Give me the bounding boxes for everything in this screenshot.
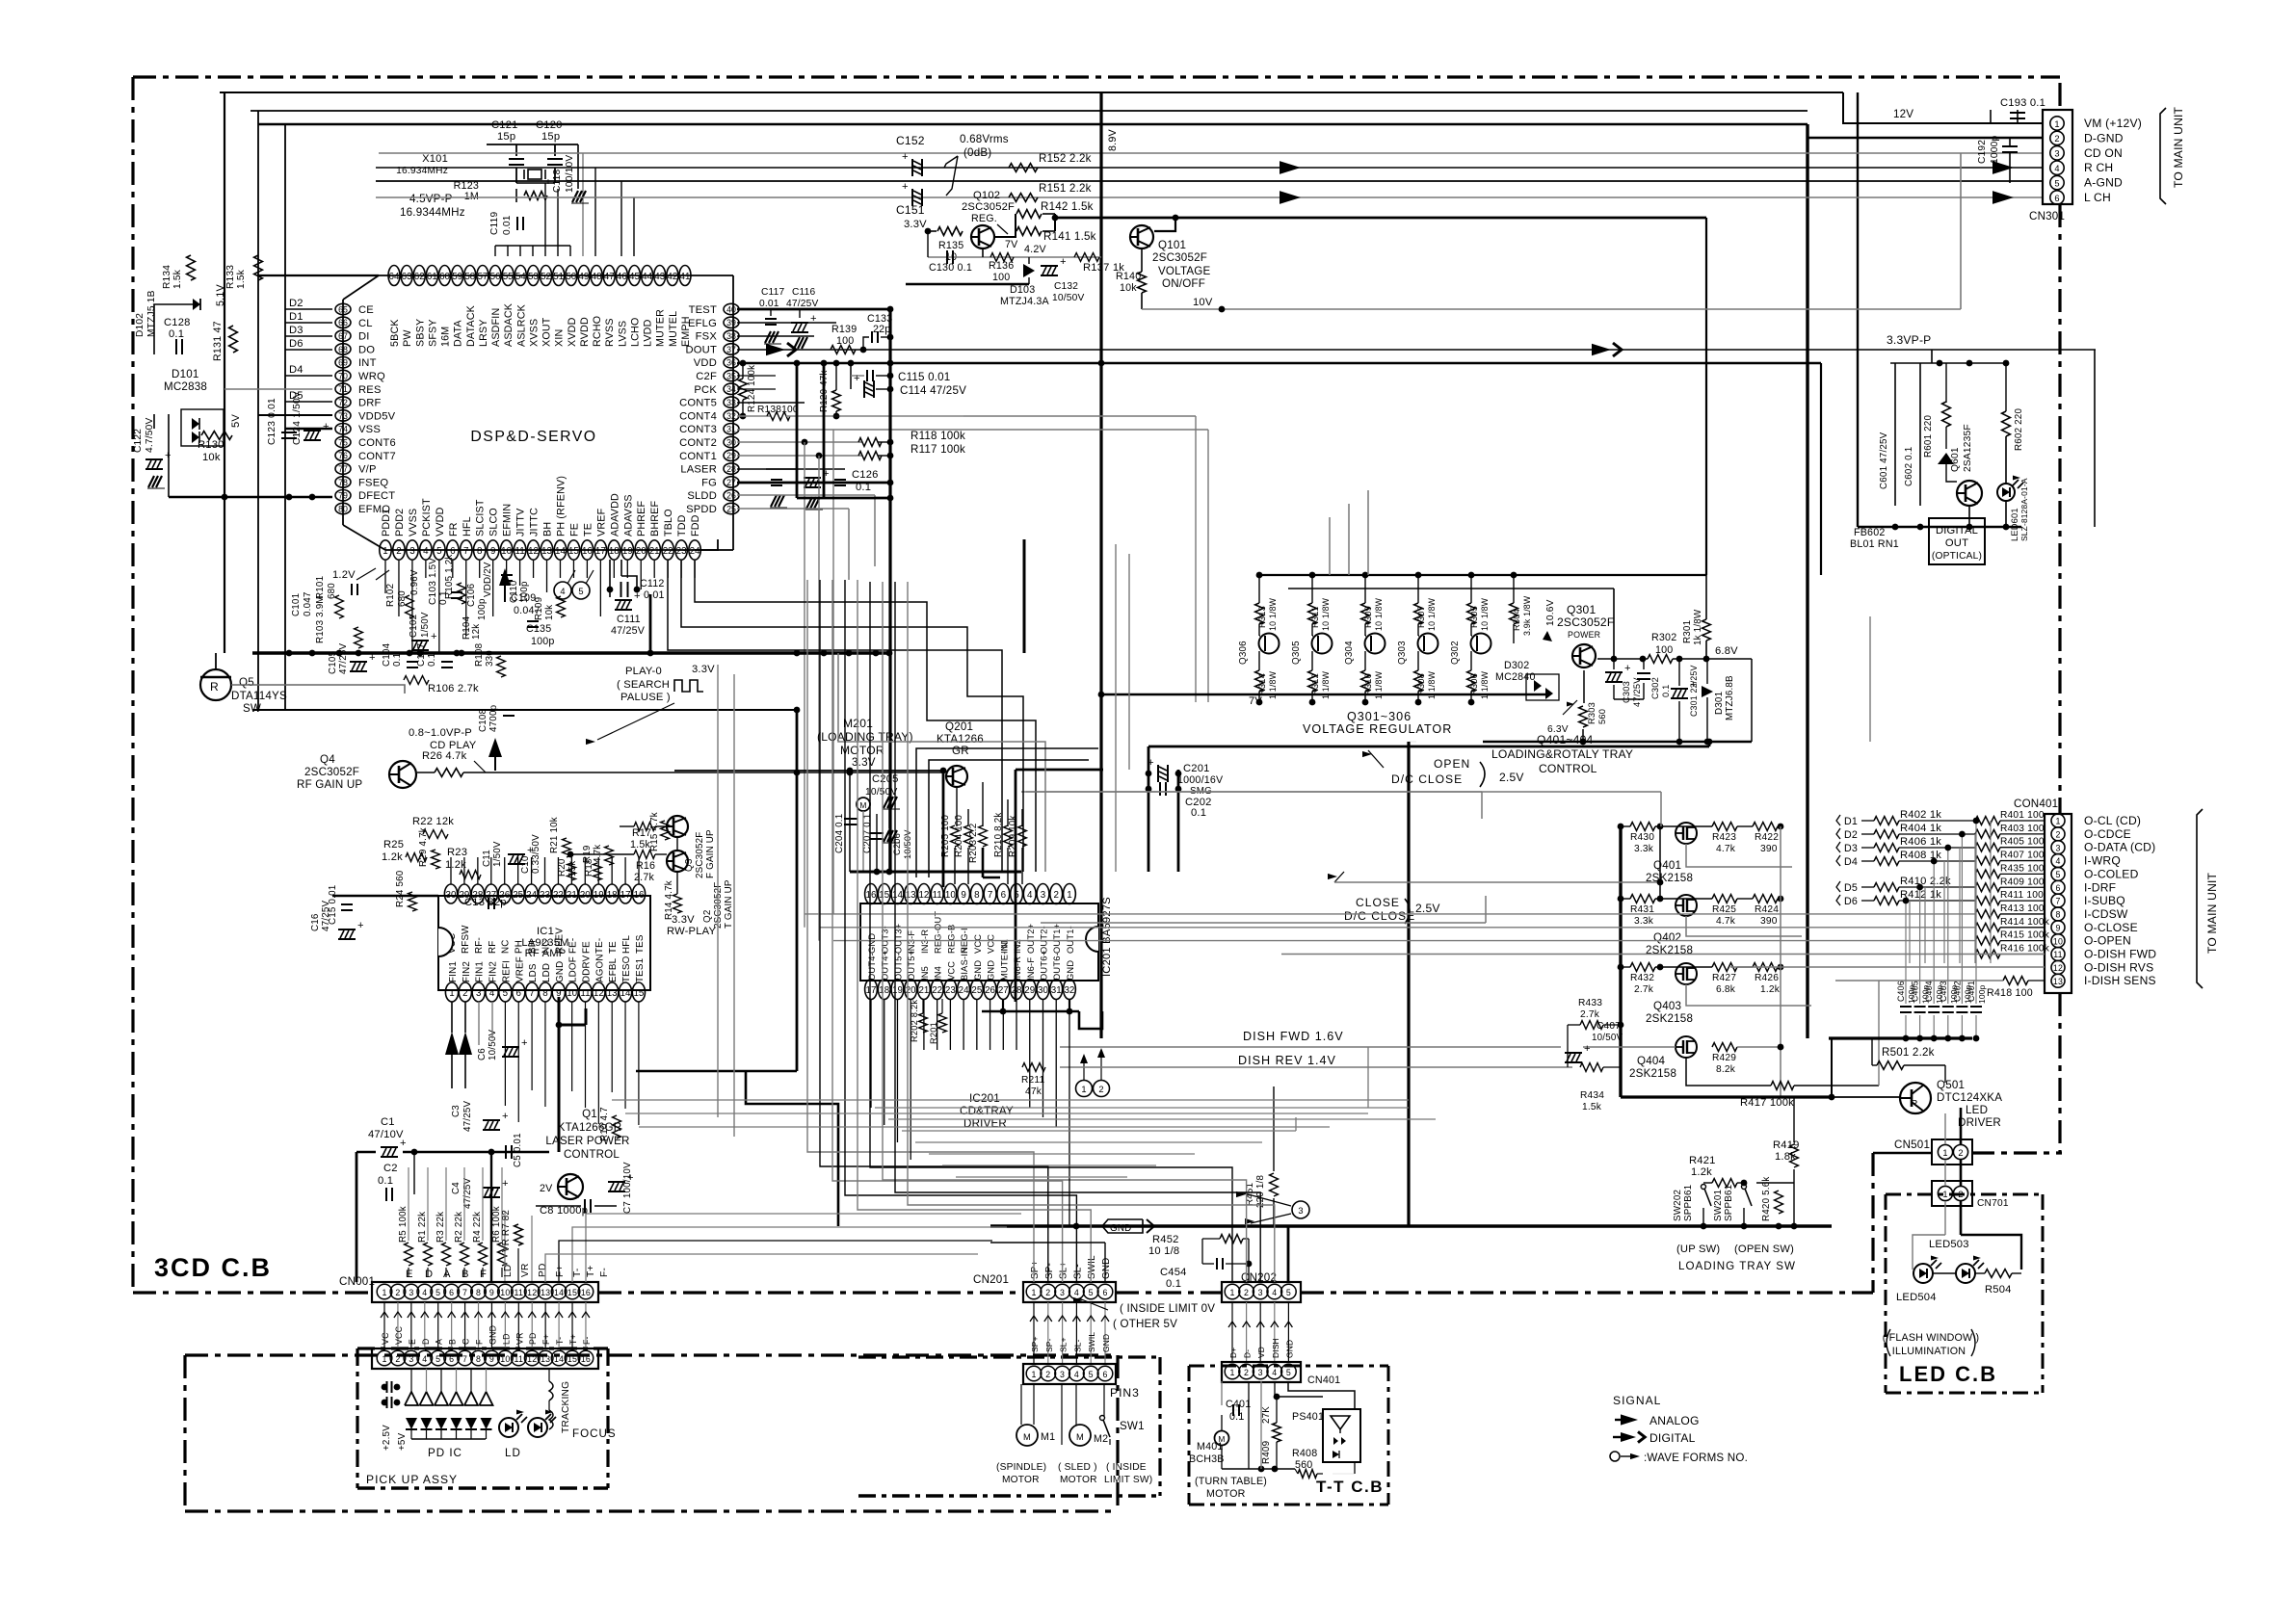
svg-text:7: 7 (462, 1288, 467, 1297)
svg-text:DDRV: DDRV (582, 955, 593, 982)
svg-text:VDD: VDD (694, 357, 717, 369)
svg-text:R432: R432 (1630, 973, 1654, 983)
svg-text:47/25V: 47/25V (611, 625, 646, 637)
svg-text:F-: F- (599, 1268, 610, 1277)
svg-text:LDD: LDD (541, 963, 552, 982)
svg-text:R133: R133 (225, 265, 236, 289)
svg-text:R130: R130 (198, 439, 224, 451)
svg-text:OUT6-: OUT6- (1052, 953, 1062, 981)
svg-text:5: 5 (1286, 1368, 1291, 1377)
svg-text:FE: FE (568, 523, 580, 537)
svg-text:LED504: LED504 (1896, 1292, 1937, 1303)
svg-text:31: 31 (1051, 985, 1062, 996)
svg-text:MC2838: MC2838 (164, 380, 207, 393)
svg-text:SLZ-8128A-01-A: SLZ-8128A-01-A (2019, 478, 2029, 541)
svg-text:CONT2: CONT2 (679, 437, 717, 449)
svg-text:0.1: 0.1 (1166, 1278, 1181, 1290)
svg-text:24: 24 (959, 985, 969, 996)
svg-text:1.5k: 1.5k (1582, 1102, 1602, 1113)
svg-text:10 1/8W: 10 1/8W (1321, 597, 1331, 631)
svg-text:C407: C407 (1597, 1021, 1621, 1032)
svg-text:MUTEL: MUTEL (668, 311, 679, 347)
svg-text:10: 10 (500, 1288, 510, 1297)
svg-text:2.5V: 2.5V (1499, 771, 1524, 784)
svg-text:VOLTAGE REGULATOR: VOLTAGE REGULATOR (1303, 722, 1452, 736)
svg-text:HFL: HFL (621, 935, 632, 954)
svg-text:3.3VP-P: 3.3VP-P (1887, 333, 1931, 347)
svg-text:Q601: Q601 (1950, 447, 1961, 472)
svg-text:LCHO: LCHO (629, 318, 641, 348)
svg-text:1: 1 (449, 988, 454, 999)
svg-text:RF AMP: RF AMP (525, 948, 567, 959)
svg-text:15: 15 (879, 890, 889, 901)
svg-text:C2: C2 (383, 1163, 398, 1174)
svg-text:23: 23 (540, 890, 550, 901)
svg-text:F: F (480, 1269, 487, 1280)
svg-text:D6: D6 (1844, 896, 1858, 907)
svg-text:5: 5 (2054, 178, 2059, 188)
svg-text:3: 3 (476, 988, 482, 999)
svg-text:R302: R302 (1651, 632, 1676, 643)
svg-text:T+: T+ (586, 1265, 596, 1277)
svg-text:2: 2 (396, 546, 401, 557)
svg-text:IN5: IN5 (920, 966, 930, 981)
svg-text:ADAVSS: ADAVSS (622, 494, 634, 537)
svg-text:C106: C106 (466, 583, 477, 607)
svg-text:5V: 5V (230, 414, 242, 428)
svg-text:0.01: 0.01 (759, 299, 779, 309)
svg-text:1: 1 (1942, 1148, 1947, 1158)
svg-text:+5V: +5V (397, 1432, 408, 1451)
svg-text:SWIL: SWIL (1087, 1255, 1097, 1279)
svg-text:F: F (475, 1339, 485, 1345)
svg-text:FE-: FE- (567, 938, 578, 954)
svg-text:1: 1 (382, 1354, 386, 1364)
svg-text:CD ON: CD ON (2084, 146, 2123, 160)
svg-text:1: 1 (1031, 1288, 1036, 1297)
svg-text:CONT7: CONT7 (358, 451, 396, 462)
svg-text:23: 23 (945, 985, 956, 996)
svg-text:XVDD: XVDD (567, 317, 578, 347)
svg-text:SLCO: SLCO (488, 508, 500, 537)
svg-text:10 1/8W: 10 1/8W (1268, 597, 1278, 631)
svg-text:15: 15 (568, 546, 579, 557)
svg-text:10/50V: 10/50V (1592, 1033, 1623, 1043)
svg-text:R1 22k: R1 22k (417, 1212, 428, 1243)
svg-text:3.3V: 3.3V (852, 756, 876, 769)
svg-text:1: 1 (383, 546, 387, 557)
svg-text:ANALOG: ANALOG (1649, 1414, 1700, 1427)
svg-text:LDS: LDS (528, 963, 539, 982)
svg-text:O-COLED: O-COLED (2084, 867, 2139, 880)
svg-text:D-: D- (1243, 1349, 1253, 1358)
svg-text:12: 12 (528, 546, 539, 557)
svg-text:GND: GND (1101, 1258, 1112, 1279)
svg-text:52: 52 (541, 272, 551, 282)
svg-text:4.5VP-P: 4.5VP-P (409, 193, 453, 205)
svg-text:LIMIT SW): LIMIT SW) (1104, 1475, 1152, 1485)
svg-text:CN001: CN001 (339, 1275, 375, 1288)
svg-text:4.2V: 4.2V (1024, 244, 1046, 255)
svg-text:7: 7 (988, 890, 992, 901)
svg-text:Q5: Q5 (239, 676, 254, 689)
svg-text:CON401: CON401 (2014, 798, 2058, 810)
svg-text:R141 1.5k: R141 1.5k (1043, 230, 1096, 243)
svg-text:3: 3 (409, 1288, 413, 1297)
svg-text:2.7k: 2.7k (634, 872, 654, 883)
svg-text:R205 100: R205 100 (940, 815, 951, 857)
svg-text:3: 3 (2054, 149, 2059, 159)
svg-text:SIGNAL: SIGNAL (1613, 1394, 1661, 1407)
svg-text:8: 8 (974, 890, 980, 901)
svg-text:2: 2 (1098, 1085, 1103, 1094)
svg-text:21: 21 (918, 985, 929, 996)
svg-text:2SK2158: 2SK2158 (1629, 1067, 1676, 1080)
svg-text:XOUT: XOUT (541, 317, 553, 347)
svg-text:VDD/2V: VDD/2V (483, 562, 493, 597)
svg-text:22p: 22p (873, 324, 890, 335)
svg-text:R403 100: R403 100 (2000, 824, 2045, 834)
svg-text:0.047: 0.047 (303, 591, 313, 616)
svg-text:(0dB): (0dB) (963, 146, 991, 159)
svg-text:14: 14 (620, 988, 631, 999)
svg-text:Q305: Q305 (1291, 641, 1302, 665)
svg-text:5: 5 (436, 546, 442, 557)
svg-text:C111: C111 (617, 614, 641, 625)
svg-text:19: 19 (594, 890, 604, 901)
svg-text:5: 5 (578, 587, 583, 596)
svg-text:I-DRF: I-DRF (2084, 880, 2116, 894)
svg-text:2: 2 (395, 1354, 400, 1364)
svg-text:DTC124XKA: DTC124XKA (1937, 1091, 2002, 1104)
svg-text:1.5k: 1.5k (172, 269, 183, 289)
svg-text:R409: R409 (1261, 1441, 1272, 1464)
svg-text:(SPINDLE): (SPINDLE) (996, 1462, 1046, 1473)
svg-text:FSX: FSX (696, 331, 718, 343)
svg-text:2: 2 (1958, 1190, 1963, 1199)
svg-text:R405 100: R405 100 (2000, 837, 2045, 848)
svg-text:ASDACK: ASDACK (503, 302, 515, 347)
svg-text:2.5V: 2.5V (1415, 902, 1440, 915)
svg-text:35: 35 (726, 371, 736, 380)
svg-text:0.1: 0.1 (1229, 1411, 1244, 1423)
svg-text:1.2k: 1.2k (1691, 1166, 1712, 1178)
svg-text:IC1: IC1 (537, 926, 554, 937)
svg-text:30: 30 (1038, 985, 1048, 996)
svg-text:C401: C401 (1966, 981, 1976, 1002)
svg-text:14: 14 (555, 546, 566, 557)
svg-text:DISH FWD 1.6V: DISH FWD 1.6V (1243, 1030, 1344, 1043)
svg-text:TBLO: TBLO (663, 509, 674, 537)
svg-text:5: 5 (1089, 1288, 1094, 1297)
svg-text:0.1: 0.1 (392, 653, 403, 667)
svg-text:PLAY-0: PLAY-0 (625, 666, 662, 677)
svg-text:330: 330 (485, 650, 495, 667)
svg-text:M1: M1 (1041, 1431, 1055, 1443)
svg-text:R415 100k: R415 100k (2000, 930, 2050, 941)
svg-text:47/25V: 47/25V (462, 1100, 473, 1132)
svg-text:53: 53 (528, 272, 539, 282)
svg-text:MTZJ5.1B: MTZJ5.1B (146, 290, 157, 337)
svg-text:10: 10 (501, 546, 512, 557)
svg-text:12k: 12k (471, 624, 482, 640)
svg-text:R410 2.2k: R410 2.2k (1900, 876, 1951, 887)
svg-text:R10 4.7: R10 4.7 (599, 1107, 610, 1141)
svg-text:A-GND: A-GND (2084, 176, 2123, 190)
svg-text:( FLASH WINDOW ): ( FLASH WINDOW ) (1883, 1332, 1980, 1344)
svg-text:I-DISH SENS: I-DISH SENS (2084, 974, 2156, 987)
svg-text:FDD: FDD (690, 514, 701, 537)
svg-text:R131 47: R131 47 (212, 321, 224, 361)
svg-text:TES1: TES1 (635, 958, 646, 982)
svg-text:SL+: SL+ (1059, 1262, 1069, 1279)
svg-text:FE: FE (581, 941, 592, 954)
svg-text:DATACK: DATACK (465, 304, 477, 347)
svg-text:R14 4.7k: R14 4.7k (664, 880, 674, 920)
svg-text:D4: D4 (289, 364, 303, 376)
svg-text:10.6V: 10.6V (1545, 599, 1556, 626)
svg-text:6.8V: 6.8V (1715, 645, 1738, 657)
svg-text:PDD2: PDD2 (394, 509, 406, 537)
svg-text:9: 9 (489, 1288, 494, 1297)
svg-text:D-GND: D-GND (2084, 131, 2124, 144)
svg-text:PD: PD (528, 1332, 538, 1345)
svg-text:8: 8 (477, 546, 483, 557)
svg-text:R23: R23 (447, 847, 467, 858)
svg-text:49: 49 (578, 272, 589, 282)
svg-text:R427: R427 (1712, 973, 1736, 983)
svg-text:4: 4 (423, 546, 429, 557)
svg-text:9: 9 (2055, 923, 2060, 932)
svg-text:13: 13 (541, 1288, 550, 1297)
svg-text:4: 4 (1074, 1370, 1079, 1379)
svg-text:8: 8 (476, 1354, 481, 1364)
svg-text:560: 560 (1597, 709, 1607, 724)
svg-text:C123 0.01: C123 0.01 (267, 398, 277, 445)
svg-text:1000p: 1000p (1990, 136, 2000, 164)
svg-text:PDD1: PDD1 (381, 509, 392, 537)
svg-text:4: 4 (2054, 164, 2059, 173)
svg-text:CN201: CN201 (973, 1273, 1009, 1286)
svg-text:C201: C201 (1183, 763, 1210, 774)
svg-text:20: 20 (636, 546, 647, 557)
svg-text:CL: CL (358, 318, 373, 329)
svg-text:4.7k: 4.7k (1716, 844, 1736, 854)
svg-text:1: 1 (2054, 119, 2059, 129)
svg-text:R413 100: R413 100 (2000, 903, 2045, 914)
svg-text:RF GAIN UP: RF GAIN UP (297, 778, 362, 791)
svg-text:41: 41 (680, 272, 691, 282)
svg-text:V/P: V/P (358, 464, 377, 476)
svg-text:(UP SW): (UP SW) (1676, 1243, 1720, 1255)
svg-text:OUT4+: OUT4+ (881, 951, 890, 981)
svg-text:VR: VR (520, 1263, 531, 1277)
svg-text:C10: C10 (520, 855, 531, 874)
svg-text:RW-PLAY: RW-PLAY (667, 926, 716, 937)
svg-text:+: + (854, 373, 860, 384)
svg-text:GR: GR (952, 745, 969, 757)
svg-text:DSP&D-SERVO: DSP&D-SERVO (470, 429, 596, 445)
svg-text:CONTROL: CONTROL (1539, 762, 1597, 775)
svg-text:C103: C103 (428, 581, 438, 605)
svg-text:1: 1 (1031, 1370, 1036, 1379)
svg-text:21: 21 (649, 546, 660, 557)
svg-text:R430: R430 (1630, 832, 1654, 843)
svg-text:46: 46 (617, 272, 627, 282)
svg-text:L CH: L CH (2084, 191, 2111, 204)
svg-text:29: 29 (1024, 985, 1035, 996)
svg-text:D/C CLOSE: D/C CLOSE (1391, 772, 1463, 786)
svg-text:3.3k: 3.3k (1634, 844, 1654, 854)
svg-text:C403: C403 (1939, 981, 1948, 1002)
svg-text:15: 15 (633, 988, 644, 999)
svg-text:VREF: VREF (515, 956, 525, 982)
svg-text:IN6-R: IN6-R (1013, 956, 1022, 981)
svg-text:47/25V: 47/25V (786, 299, 819, 309)
svg-text:C204 0.1: C204 0.1 (834, 814, 845, 853)
svg-text:15p: 15p (497, 131, 515, 143)
svg-text:4.7k: 4.7k (1716, 916, 1736, 927)
svg-text:9: 9 (961, 890, 965, 901)
svg-text:Q401: Q401 (1653, 859, 1681, 872)
svg-text:R142 1.5k: R142 1.5k (1041, 200, 1094, 213)
svg-text:( INSIDE LIMIT 0V: ( INSIDE LIMIT 0V (1120, 1302, 1215, 1315)
svg-text:FG: FG (701, 477, 717, 488)
svg-text:C404: C404 (1924, 981, 1934, 1002)
svg-text:1: 1 (1067, 890, 1071, 901)
svg-text:OUT2-: OUT2- (1039, 926, 1048, 954)
svg-text:TDD: TDD (676, 514, 688, 537)
svg-text:A: A (443, 1269, 451, 1280)
svg-text:2: 2 (2054, 134, 2059, 144)
svg-text:+: + (1624, 663, 1631, 674)
svg-text:D103: D103 (1010, 284, 1035, 296)
svg-text:8: 8 (2055, 910, 2060, 920)
svg-text:C7 100/10V: C7 100/10V (622, 1162, 633, 1214)
svg-text:GND: GND (1284, 1340, 1294, 1358)
svg-text:C101: C101 (291, 593, 302, 616)
svg-text:47k: 47k (1025, 1086, 1042, 1097)
svg-text:D101: D101 (172, 368, 199, 380)
svg-text:VM (+12V): VM (+12V) (2084, 117, 2142, 130)
svg-text:Q2: Q2 (702, 910, 713, 923)
svg-text:1 1/8W: 1 1/8W (1374, 670, 1384, 699)
svg-text:R118 100k: R118 100k (910, 430, 965, 442)
svg-text:VR: VR (515, 1332, 524, 1345)
svg-text:C8 1000p: C8 1000p (540, 1205, 588, 1217)
svg-text:64: 64 (389, 272, 400, 282)
svg-text:CN701: CN701 (1977, 1198, 2009, 1209)
svg-text:R407 100: R407 100 (2000, 851, 2045, 861)
svg-text:M401: M401 (1197, 1441, 1224, 1453)
svg-text:O-DISH FWD: O-DISH FWD (2084, 948, 2156, 961)
svg-text:7V: 7V (1005, 239, 1018, 250)
svg-text:R452: R452 (1152, 1234, 1179, 1245)
svg-text:SBSY: SBSY (414, 319, 426, 347)
svg-text:R: R (210, 680, 219, 694)
svg-text:D: D (421, 1338, 431, 1345)
svg-text:FIN2: FIN2 (488, 961, 499, 982)
svg-text:R303: R303 (1587, 702, 1597, 724)
svg-text:TE: TE (608, 941, 619, 954)
svg-text:R139: R139 (831, 324, 857, 335)
svg-text:16.9344MHz: 16.9344MHz (400, 206, 465, 219)
svg-text:5BCK: 5BCK (389, 319, 401, 347)
svg-text:55: 55 (503, 272, 514, 282)
svg-text:O-CDCE: O-CDCE (2084, 827, 2131, 841)
svg-text:FR: FR (448, 522, 460, 537)
svg-text:ADAVDD: ADAVDD (609, 493, 620, 537)
svg-text:Q4: Q4 (320, 753, 335, 766)
svg-text:C6: C6 (477, 1048, 488, 1060)
svg-text:10: 10 (945, 890, 956, 901)
svg-text:R140: R140 (1116, 271, 1141, 282)
svg-text:R402 1k: R402 1k (1900, 809, 1941, 821)
svg-text:D301: D301 (1714, 692, 1725, 715)
svg-text:62: 62 (414, 272, 425, 282)
svg-text:CONT6: CONT6 (358, 437, 396, 449)
svg-text:58: 58 (464, 272, 475, 282)
svg-text:26: 26 (726, 491, 736, 501)
svg-text:D5: D5 (1844, 882, 1858, 894)
svg-text:R416 100k: R416 100k (2000, 944, 2050, 955)
svg-text:PCK: PCK (694, 384, 717, 396)
svg-text:C405: C405 (1911, 981, 1920, 1002)
svg-text:C122: C122 (133, 429, 144, 453)
svg-text:( INSIDE: ( INSIDE (1106, 1462, 1147, 1473)
svg-text:7: 7 (2055, 897, 2060, 906)
svg-text:LASER: LASER (680, 464, 717, 476)
svg-text:SP+: SP+ (1030, 1261, 1041, 1279)
svg-text:IC201 BA5927S: IC201 BA5927S (1101, 897, 1113, 977)
svg-text:1 1/8W: 1 1/8W (1268, 670, 1278, 699)
svg-text:F GAIN UP: F GAIN UP (705, 829, 716, 878)
svg-text:R135: R135 (938, 240, 963, 251)
svg-text:R404 1k: R404 1k (1900, 823, 1941, 834)
svg-text:8: 8 (476, 1288, 481, 1297)
svg-text:1.5V: 1.5V (428, 558, 438, 578)
svg-text:C192: C192 (1977, 140, 1988, 164)
svg-text:VDD5V: VDD5V (358, 410, 396, 422)
svg-text:R409 100: R409 100 (2000, 877, 2045, 887)
svg-text:16: 16 (634, 890, 645, 901)
svg-text:R109: R109 (534, 597, 544, 620)
svg-text:1/50V: 1/50V (492, 841, 503, 867)
svg-text:FIN2: FIN2 (462, 961, 472, 982)
svg-text:+: + (502, 1178, 509, 1190)
svg-text:+: + (1148, 757, 1154, 769)
svg-text:CN301: CN301 (2029, 210, 2065, 223)
svg-text:4: 4 (1027, 890, 1033, 901)
svg-text:10 1/8: 10 1/8 (1148, 1245, 1179, 1257)
svg-text:Q403: Q403 (1653, 1000, 1681, 1012)
svg-text:R601 220: R601 220 (1923, 415, 1934, 458)
svg-text:PW: PW (402, 329, 413, 347)
svg-text:PCKIST: PCKIST (421, 498, 433, 537)
svg-text:LED: LED (1966, 1104, 1988, 1116)
svg-text:DI: DI (358, 331, 370, 343)
svg-text:C16: C16 (310, 913, 321, 931)
svg-text:2: 2 (395, 1288, 400, 1297)
svg-text:4: 4 (2055, 856, 2060, 866)
svg-text:22: 22 (932, 985, 942, 996)
svg-text:O-CLOSE: O-CLOSE (2084, 921, 2138, 934)
svg-text:Q201: Q201 (945, 720, 973, 733)
svg-text:11: 11 (580, 988, 590, 999)
svg-text:+: + (902, 151, 909, 163)
svg-text:OUT1-: OUT1- (1066, 926, 1075, 954)
svg-text:+: + (400, 1138, 407, 1149)
